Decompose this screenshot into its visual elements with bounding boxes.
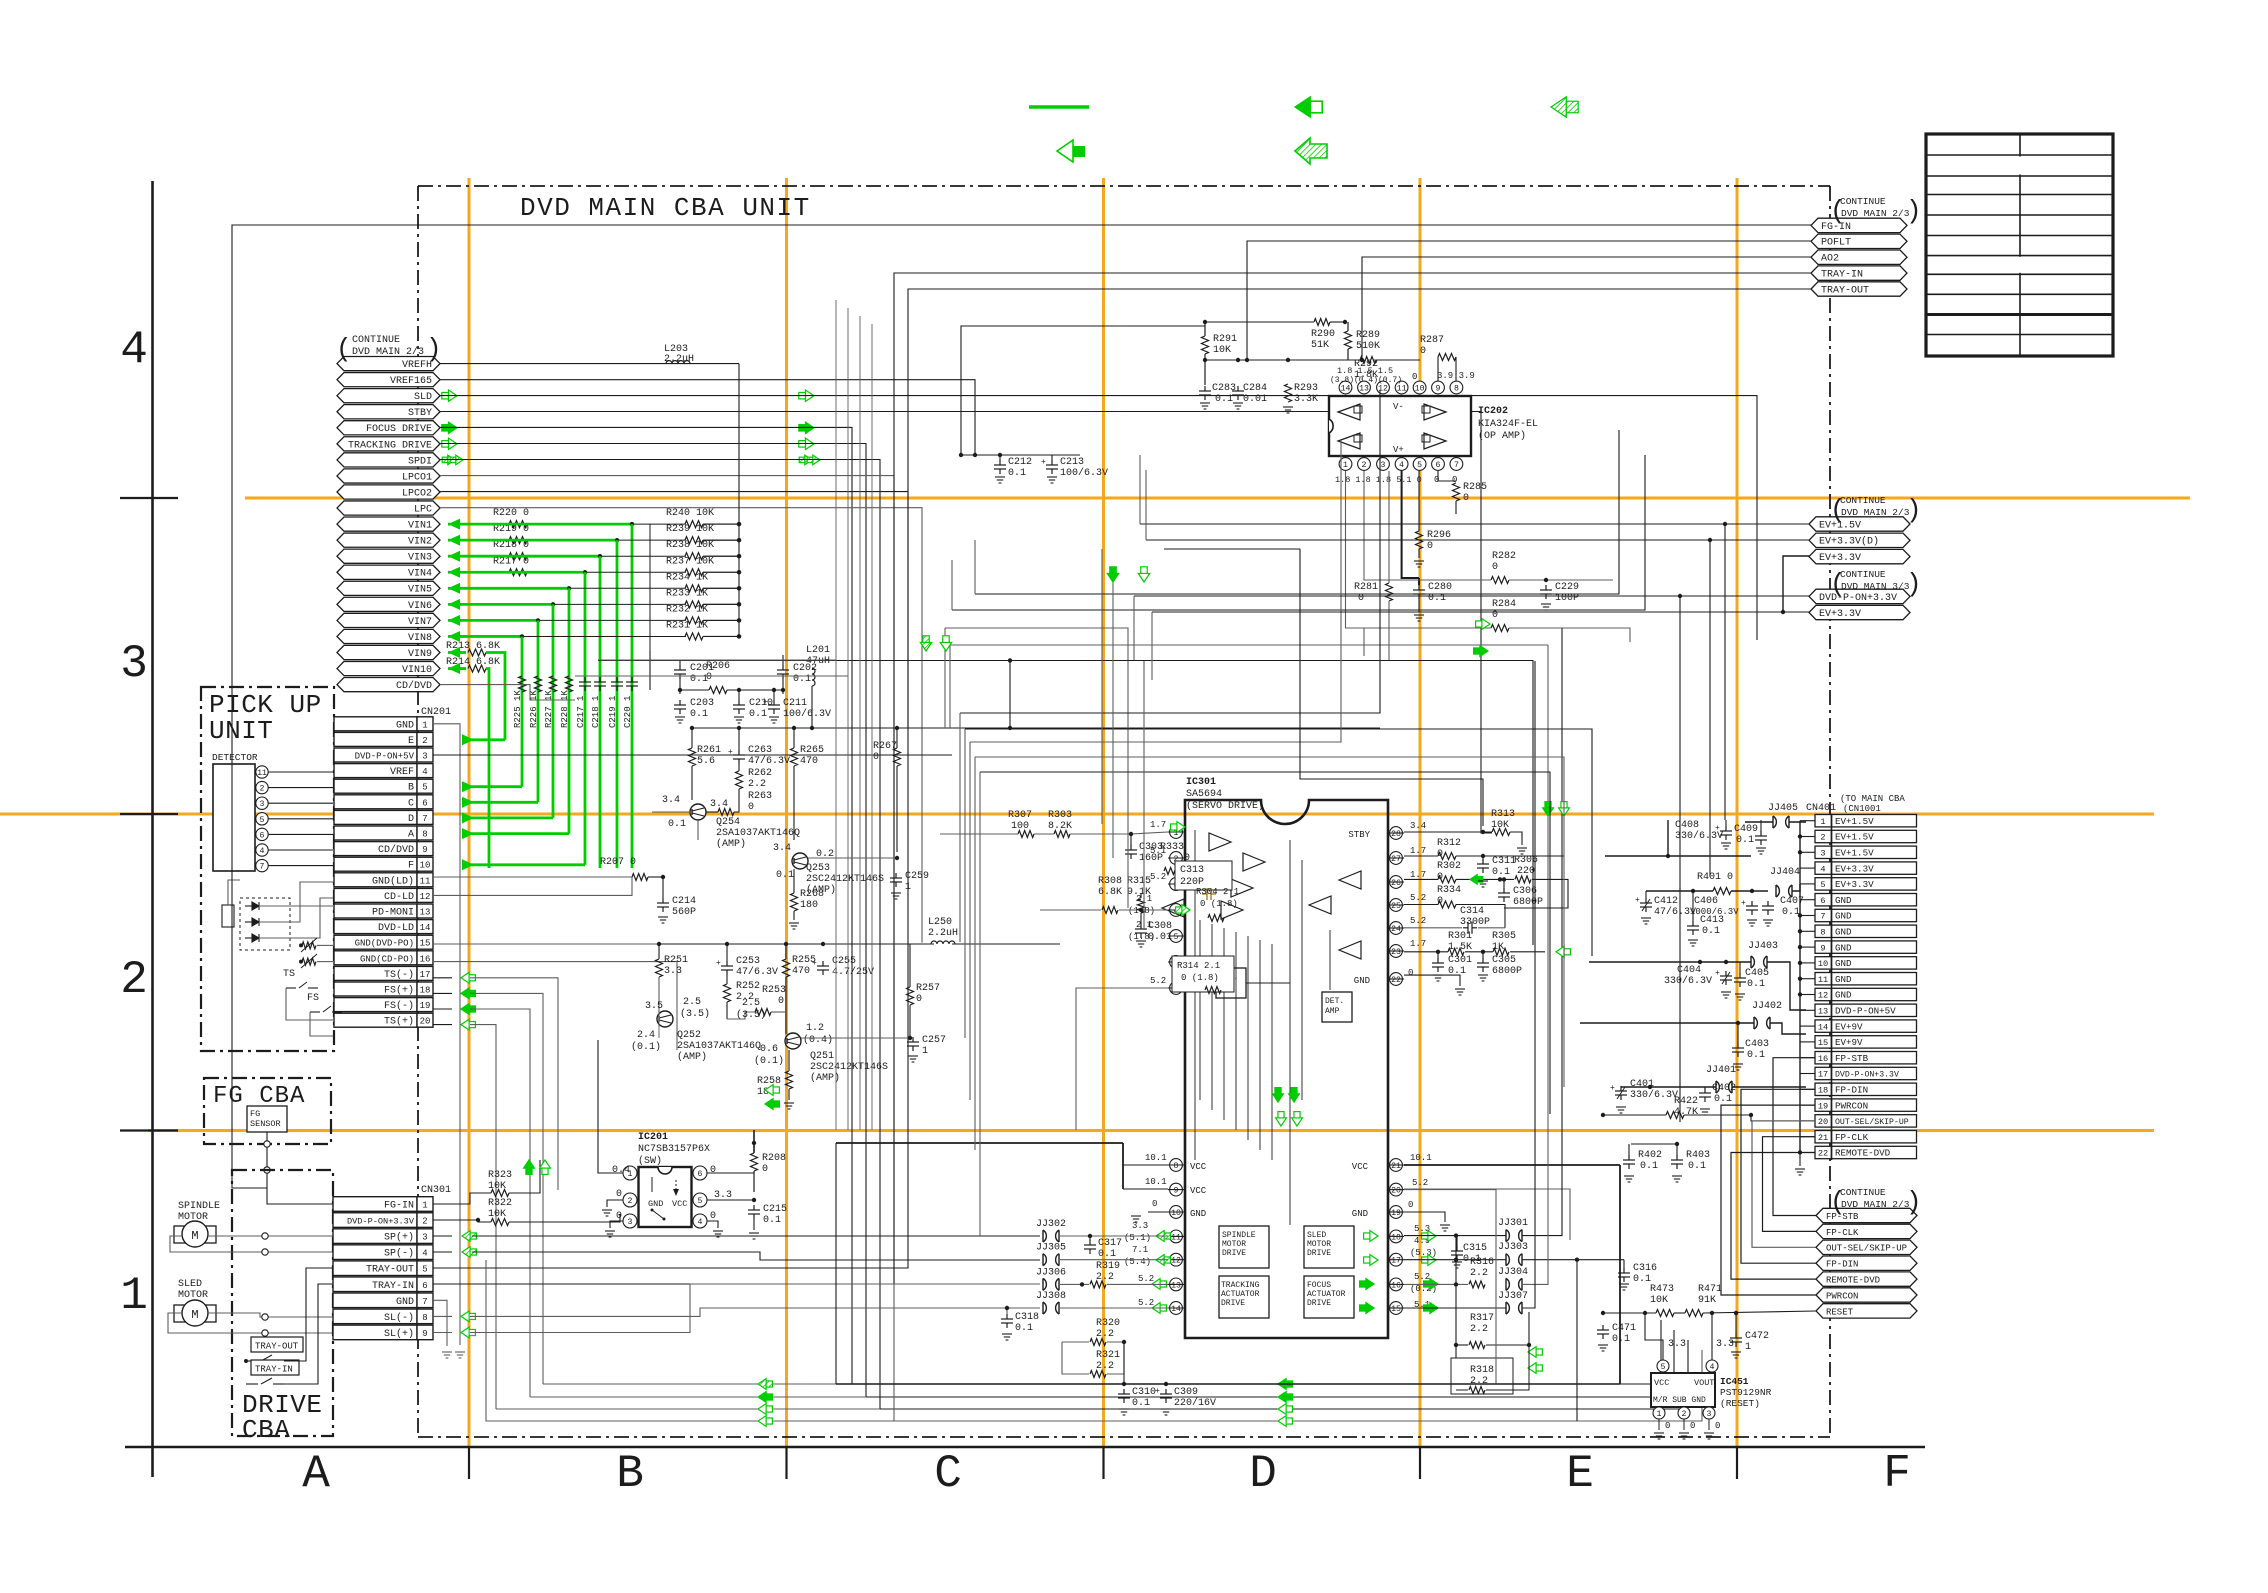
svg-text:0: 0 — [1665, 1421, 1670, 1431]
wire RESET net — [1603, 1312, 1656, 1314]
svg-text:0.01: 0.01 — [1243, 394, 1267, 405]
transistor Q254 2SA1037AKT146Q — [690, 804, 706, 820]
CN301 pin 2 DVD-P-ON+3.3V — [333, 1213, 417, 1228]
svg-text:EV+3.3V(D): EV+3.3V(D) — [1819, 536, 1879, 548]
svg-text:R401 0: R401 0 — [1697, 872, 1733, 883]
svg-text:0: 0 — [1358, 593, 1364, 604]
svg-text:TRAY-IN: TRAY-IN — [1821, 270, 1863, 281]
svg-text:21: 21 — [1391, 1162, 1401, 1171]
svg-text:C313: C313 — [1180, 865, 1204, 876]
component R226 on VIN bus — [535, 676, 542, 692]
svg-text:160P: 160P — [1139, 853, 1163, 864]
svg-text:14: 14 — [1818, 1022, 1828, 1032]
green arrows on bottom bundle x758 — [758, 1379, 766, 1390]
svg-text:C413: C413 — [1700, 915, 1724, 926]
IC202 pin 4 — [1395, 458, 1408, 471]
svg-text:GND(DVD-PO): GND(DVD-PO) — [355, 939, 414, 949]
IC451 pin 4 — [1706, 1360, 1718, 1372]
svg-text:C212: C212 — [1008, 457, 1032, 468]
svg-text:VIN1: VIN1 — [408, 521, 432, 532]
svg-text:SENSOR: SENSOR — [250, 1119, 281, 1129]
svg-text:47uH: 47uH — [806, 656, 830, 667]
svg-text:FP-STB: FP-STB — [1835, 1053, 1869, 1064]
svg-text:(CN1001: (CN1001 — [1843, 804, 1881, 814]
CN201 pin 12 CD-LD — [334, 888, 417, 902]
IC201 pin 2 — [623, 1193, 637, 1207]
wire LPCO1 — [440, 476, 1702, 1421]
IC301 pin 2 — [1170, 852, 1183, 865]
svg-text:GND: GND — [1835, 974, 1852, 985]
svg-text:0: 0 — [1427, 541, 1433, 552]
svg-text:3300P: 3300P — [1460, 917, 1490, 928]
svg-text:1.7: 1.7 — [1410, 846, 1426, 856]
svg-text:10: 10 — [1818, 959, 1828, 969]
svg-text:+: + — [728, 748, 733, 757]
op-amp element — [1338, 404, 1360, 420]
wire C212 node to R291 node — [961, 326, 1205, 455]
svg-text:3: 3 — [1820, 849, 1825, 859]
wire pin20 — [1404, 1189, 1570, 1240]
svg-text:4: 4 — [698, 1218, 703, 1227]
revision table (top right) — [1926, 134, 2113, 356]
black vertical x650 — [649, 524, 651, 651]
wire FG-IN net — [232, 225, 1811, 1188]
svg-text:CONTINUE: CONTINUE — [1840, 495, 1886, 506]
svg-text:10K: 10K — [1213, 345, 1231, 356]
IC301 internal wiring — [1199, 920, 1201, 1100]
svg-text:C305: C305 — [1492, 955, 1516, 966]
svg-text:R252: R252 — [736, 981, 760, 992]
capacitor C316 0.1 (right) — [1618, 1268, 1630, 1282]
green arrow SP(-) — [462, 1247, 470, 1258]
op-amp (IC301 internal) — [1339, 871, 1361, 889]
svg-text:VIN8: VIN8 — [408, 633, 432, 644]
green reference line (top) — [1029, 105, 1089, 108]
svg-text:AMP: AMP — [1325, 1007, 1340, 1016]
svg-text:R313: R313 — [1491, 809, 1515, 820]
svg-text:CN401: CN401 — [1806, 803, 1836, 814]
wire bundle bottom row4 left — [486, 1260, 894, 1421]
svg-text:+: + — [1610, 1084, 1615, 1093]
wire EV+3.3V jog — [1790, 555, 1809, 557]
svg-text:C316: C316 — [1633, 1263, 1657, 1274]
svg-text:1: 1 — [422, 1201, 427, 1211]
svg-text:4: 4 — [120, 324, 148, 376]
wire FS(-) row — [433, 1008, 452, 1010]
svg-text:(3.5): (3.5) — [736, 1009, 766, 1021]
svg-text:TRAY-OUT: TRAY-OUT — [366, 1265, 414, 1276]
IC451 pin 1 — [1653, 1407, 1665, 1419]
svg-text:PWRCON: PWRCON — [1826, 1291, 1858, 1301]
svg-text:IC201: IC201 — [638, 1132, 668, 1143]
svg-text:GND: GND — [1835, 911, 1852, 922]
svg-text:C318: C318 — [1015, 1312, 1039, 1323]
svg-text:3: 3 — [1381, 461, 1386, 470]
svg-text:7.1: 7.1 — [1132, 1245, 1148, 1255]
wire JJ305 to pin12 — [1060, 1259, 1168, 1261]
FOCUS ACTUATOR DRIVE block — [1304, 1276, 1354, 1318]
svg-text:R305: R305 — [1492, 931, 1516, 942]
node label VIN3 — [337, 549, 440, 563]
svg-text:0.6: 0.6 — [760, 1044, 778, 1055]
svg-text:C217 1: C217 1 — [576, 696, 586, 728]
wire C201 top — [649, 651, 651, 690]
svg-text:R284: R284 — [1492, 599, 1516, 610]
wire EV+3.3V(D) feed — [1146, 540, 1710, 877]
svg-text:CN301: CN301 — [421, 1185, 451, 1196]
wire VREF165 — [440, 380, 975, 455]
svg-text:3.5: 3.5 — [645, 1001, 663, 1012]
svg-text:B: B — [616, 1448, 644, 1500]
svg-text:5: 5 — [1174, 933, 1179, 942]
node label LPC — [337, 501, 440, 515]
op-amp (IC301 internal) — [1221, 901, 1243, 919]
capacitor C305 6800P — [1482, 952, 1484, 959]
svg-text:(3.8)(0.4)(0.7): (3.8)(0.4)(0.7) — [1330, 376, 1402, 385]
svg-text:2.2: 2.2 — [748, 779, 766, 790]
svg-text:3.3: 3.3 — [664, 966, 682, 977]
capacitor C202 0.1 — [777, 665, 789, 679]
svg-text:470: 470 — [792, 966, 810, 977]
svg-text:R308: R308 — [1098, 876, 1122, 887]
node label VIN2 — [337, 533, 440, 547]
svg-text:1.8 1.5 1.5: 1.8 1.5 1.5 — [1337, 366, 1393, 376]
svg-text:DVD-P-ON+3.3V: DVD-P-ON+3.3V — [1835, 1071, 1899, 1080]
detector pin 5 — [256, 813, 268, 825]
wire JJ308 to pin14 — [1060, 1307, 1168, 1309]
svg-text:7: 7 — [1454, 461, 1459, 470]
svg-text:15: 15 — [1391, 1305, 1401, 1314]
svg-text:R302: R302 — [1437, 861, 1461, 872]
svg-text:R315: R315 — [1127, 876, 1151, 887]
node label VIN6 — [337, 597, 440, 611]
capacitor C301 0.1 — [1437, 952, 1439, 959]
wire R208 top — [753, 1130, 755, 1153]
orange horizontal grid line 3/4 — [245, 497, 2190, 500]
svg-text:D: D — [408, 814, 414, 825]
svg-text:2.2: 2.2 — [1470, 1268, 1488, 1279]
svg-text:A: A — [302, 1448, 330, 1500]
svg-text:4: 4 — [422, 767, 427, 777]
node label SLD — [337, 389, 440, 403]
TRACKING ACTUATOR DRIVE block — [1219, 1276, 1269, 1318]
CN301 pin 4 SP(-) — [333, 1245, 417, 1260]
svg-text:POFLT: POFLT — [1821, 238, 1851, 249]
power rail 1 (y728) — [692, 727, 1380, 729]
svg-text:C203: C203 — [690, 698, 714, 709]
svg-text:23: 23 — [1391, 948, 1401, 957]
wire CN401 pin22 to bottom connector — [1731, 1153, 1816, 1280]
IC301 pin 9 — [1170, 1183, 1183, 1196]
svg-text:R317: R317 — [1470, 1313, 1494, 1324]
svg-text:1: 1 — [905, 882, 911, 893]
svg-text:R225 1K: R225 1K — [513, 690, 523, 728]
svg-text:UNIT: UNIT — [209, 716, 273, 746]
svg-text:EV+9V: EV+9V — [1835, 1037, 1863, 1048]
svg-text:R238 10K: R238 10K — [666, 540, 714, 551]
svg-text:+: + — [1041, 458, 1046, 467]
svg-text:VREF165: VREF165 — [390, 376, 432, 387]
IC201 pin 5 — [693, 1193, 707, 1207]
svg-text:D: D — [1249, 1448, 1277, 1500]
svg-text:2SA1037AKT146Q: 2SA1037AKT146Q — [677, 1041, 761, 1052]
svg-text:12: 12 — [1171, 1257, 1181, 1266]
op-amp element — [1424, 433, 1446, 449]
svg-text:DVD-LD: DVD-LD — [378, 923, 414, 934]
photo sensor sub-box — [222, 905, 234, 927]
op-amp element — [1338, 433, 1360, 449]
node label VIN10 — [337, 661, 440, 675]
svg-text:510K: 510K — [1356, 341, 1380, 352]
svg-text:19: 19 — [1391, 1209, 1401, 1218]
svg-text:1: 1 — [1657, 1410, 1662, 1419]
capacitor C303 160P — [1130, 834, 1132, 846]
svg-text:3.3: 3.3 — [714, 1190, 732, 1201]
svg-text:R323: R323 — [488, 1170, 512, 1181]
wire spindle motor SP(+) — [208, 1235, 333, 1237]
svg-text:0: 0 — [1492, 562, 1498, 573]
component C217 on VIN bus — [579, 677, 591, 691]
wire CN401 pin21 to bottom connector — [1763, 1137, 1817, 1232]
IC201 pin 4 — [693, 1214, 707, 1228]
svg-text:VIN6: VIN6 — [408, 601, 432, 612]
wire nest line 6 — [960, 390, 1380, 713]
IC301 pin 23 — [1390, 945, 1403, 958]
svg-text:FP-CLK: FP-CLK — [1826, 1228, 1859, 1238]
green arrow at SLD (mid) — [805, 390, 814, 401]
svg-text:FP-DIN: FP-DIN — [1826, 1260, 1858, 1270]
svg-text:IC301: IC301 — [1186, 777, 1216, 788]
svg-text:6: 6 — [698, 1170, 703, 1179]
green arrows at IC301 right side — [1370, 1231, 1378, 1242]
svg-text:C404: C404 — [1677, 965, 1701, 976]
svg-text:OUT-SEL/SKIP-UP: OUT-SEL/SKIP-UP — [1835, 1117, 1909, 1127]
detector pin 11 — [256, 766, 268, 778]
svg-text:0.4: 0.4 — [612, 1165, 630, 1176]
node label DVD-P-ON+3.3V — [1809, 589, 1910, 603]
wire pin20 down — [1404, 1190, 1496, 1384]
node label TRAY-IN — [1811, 266, 1907, 280]
svg-text:0: 0 — [1152, 1199, 1157, 1209]
svg-text:C: C — [934, 1448, 962, 1500]
svg-text:EV+1.5V: EV+1.5V — [1835, 816, 1874, 827]
CN401 pin 22 REMOTE-DVD — [1815, 1146, 1832, 1158]
resistor R289 510K — [1345, 331, 1352, 349]
svg-text:RESET: RESET — [1826, 1307, 1854, 1317]
svg-text:R473: R473 — [1650, 1284, 1674, 1295]
svg-text:2: 2 — [260, 785, 265, 794]
wire CD/DVD — [440, 685, 575, 700]
capacitor C203 0.1 — [674, 700, 686, 714]
svg-text:0: 0 — [762, 1164, 768, 1175]
svg-text:TRACKING: TRACKING — [1221, 1281, 1260, 1290]
svg-text:R237 10K: R237 10K — [666, 556, 714, 567]
IC301 pin 13 — [1170, 1278, 1183, 1291]
svg-text:0.1: 0.1 — [1098, 1249, 1116, 1260]
svg-text:3.4: 3.4 — [773, 843, 791, 854]
svg-text:10: 10 — [420, 861, 431, 871]
green wire VIN9 — [448, 651, 466, 654]
IC301 pin 25 — [1390, 899, 1403, 912]
svg-text:ACTUATOR: ACTUATOR — [1221, 1290, 1260, 1299]
wire sled motor SL(-) — [208, 1313, 333, 1317]
IC301 pin 8 — [1170, 1159, 1183, 1172]
capacitor C311 0.1 — [1482, 856, 1484, 861]
node label FP-CLK — [1816, 1224, 1917, 1238]
svg-text:V-: V- — [1393, 402, 1404, 412]
CN201 pin 1 GND — [334, 717, 417, 731]
node label STBY — [337, 405, 440, 419]
CN401 pin 19 PWRCON — [1815, 1099, 1832, 1111]
svg-text:R228 1K: R228 1K — [560, 690, 570, 728]
component C220 on VIN bus — [626, 677, 638, 691]
resistor R314 (boxed) — [1172, 956, 1234, 992]
svg-text:0.1: 0.1 — [1640, 1161, 1658, 1172]
svg-text:EV+3.3V: EV+3.3V — [1835, 863, 1874, 874]
svg-text:3: 3 — [1707, 1410, 1712, 1419]
svg-text:IC202: IC202 — [1478, 406, 1508, 417]
wire JJ302 to pin11 — [1060, 1235, 1168, 1237]
capacitor C263 47/6.3V — [733, 750, 745, 764]
svg-text:100/6.3V: 100/6.3V — [1060, 467, 1108, 479]
green arrow pin4 — [1182, 905, 1190, 916]
green wire into CN201 row y739 — [462, 738, 505, 741]
IC201 pin 3 — [623, 1214, 637, 1228]
svg-text:R265: R265 — [800, 745, 824, 756]
svg-text:JJ302: JJ302 — [1036, 1219, 1066, 1230]
svg-text:6: 6 — [422, 1281, 427, 1291]
wire nest feed x1102 — [1101, 549, 1103, 824]
svg-text:3: 3 — [120, 638, 148, 690]
green wire VIN7 — [538, 619, 686, 621]
CN401 pin 6 GND — [1815, 894, 1832, 906]
svg-text:R289: R289 — [1356, 330, 1380, 341]
wire FG sensor to CN301 pin1 — [267, 1132, 333, 1204]
wire FS(+) row — [433, 992, 452, 994]
svg-text:(0.1): (0.1) — [754, 1055, 784, 1067]
wire sled motor SL(+) — [168, 1313, 333, 1333]
CN201 pin 2 E — [334, 732, 417, 746]
svg-text:0.01: 0.01 — [1148, 932, 1172, 943]
transistor Q253 2SC2412KT146S — [792, 853, 808, 869]
power rail 2 (y942) — [659, 943, 934, 945]
wire bundle bottom row3 left — [496, 1408, 880, 1410]
svg-text:25: 25 — [1391, 902, 1401, 911]
green wire VIN6 — [553, 603, 686, 605]
wire spindle motor SP(-) — [170, 1236, 333, 1252]
wire GND(DVD-PO) row joins rail — [433, 943, 659, 945]
IC202 pin 14 — [1339, 381, 1352, 394]
svg-text:C403: C403 — [1745, 1039, 1769, 1050]
svg-text:17: 17 — [1818, 1070, 1828, 1080]
svg-text:0.1: 0.1 — [776, 870, 794, 881]
IC202 pin 10 — [1413, 381, 1426, 394]
svg-text:DVD-P-ON+5V: DVD-P-ON+5V — [1835, 1006, 1896, 1017]
svg-text:+: + — [1741, 899, 1746, 908]
svg-text:0: 0 — [1412, 372, 1417, 382]
node label VIN5 — [337, 581, 440, 595]
svg-text:2.5: 2.5 — [742, 998, 760, 1009]
resistor R296 0 — [1416, 531, 1423, 549]
svg-text:5.2: 5.2 — [1412, 1178, 1428, 1188]
svg-text:1: 1 — [922, 1046, 928, 1057]
green arrows below Q251 — [765, 1085, 773, 1096]
left border tick y498 — [120, 497, 178, 499]
IC301 pin 7 — [1170, 982, 1183, 995]
node label TRACKING DRIVE — [337, 437, 440, 451]
svg-text:11: 11 — [1397, 385, 1407, 394]
svg-text:FP-DIN: FP-DIN — [1835, 1085, 1868, 1096]
svg-text:ACTUATOR: ACTUATOR — [1307, 1290, 1346, 1299]
SLED MOTOR DRIVE block — [1304, 1226, 1354, 1268]
green arrow at R305 — [1556, 946, 1564, 957]
svg-text:5: 5 — [260, 816, 265, 825]
node label LPCO1 — [337, 469, 440, 483]
svg-text:+: + — [716, 959, 721, 968]
node label FP-STB — [1816, 1208, 1917, 1222]
IC301 pin 20 — [1390, 1183, 1403, 1196]
IC201 pin 1 — [623, 1166, 637, 1180]
svg-text:10.1: 10.1 — [1145, 1177, 1167, 1187]
CN401 pin 16 FP-STB — [1815, 1052, 1832, 1064]
CN201 pin 11 GND(LD) — [334, 873, 417, 887]
node label LPCO2 — [337, 485, 440, 499]
svg-text:22: 22 — [1818, 1149, 1828, 1159]
resistor R291 10K — [1202, 336, 1209, 354]
svg-text:R403: R403 — [1686, 1150, 1710, 1161]
CN401 pin 4 EV+3.3V — [1815, 862, 1832, 874]
svg-text:): ) — [1906, 1187, 1922, 1217]
svg-text:C210: C210 — [749, 698, 773, 709]
svg-text:0: 0 — [1434, 475, 1439, 485]
svg-text:JJ301: JJ301 — [1498, 1218, 1528, 1229]
svg-text:R268: R268 — [800, 889, 824, 900]
svg-text:2SA1037AKT146Q: 2SA1037AKT146Q — [716, 828, 800, 839]
svg-text:(SW): (SW) — [638, 1155, 662, 1167]
svg-text:C401: C401 — [1630, 1079, 1654, 1090]
svg-text:JJ404: JJ404 — [1770, 867, 1800, 878]
IC301 pin 6 — [1170, 956, 1183, 969]
node label VREF165 — [337, 373, 440, 387]
green wire into CN201 row y864 — [462, 863, 585, 866]
DRIVE CBA box — [232, 1170, 333, 1436]
svg-text:FG-IN: FG-IN — [384, 1201, 414, 1212]
CN401 pin 5 EV+3.3V — [1815, 878, 1832, 890]
svg-text:SA5694: SA5694 — [1186, 789, 1222, 800]
svg-text:FS(+): FS(+) — [384, 985, 414, 997]
svg-text:0.1: 0.1 — [1008, 468, 1026, 479]
svg-text:EV+1.5V: EV+1.5V — [1835, 848, 1874, 859]
DVD MAIN CBA UNIT boundary (dash-dot box) — [418, 185, 1830, 187]
wire IC201 pin1 — [598, 1040, 623, 1173]
svg-text:C405: C405 — [1745, 968, 1769, 979]
green down arrow pair at R313 — [1543, 808, 1554, 816]
node label REMOTE-DVD — [1816, 1272, 1917, 1286]
wire CN401 pin18 to bottom connector — [1741, 1089, 1816, 1263]
wire JJ307 out — [1522, 661, 1535, 1308]
svg-text:4: 4 — [1710, 1363, 1715, 1372]
svg-text:180: 180 — [800, 900, 818, 911]
wire SP(-) net — [433, 1251, 452, 1253]
svg-text:19: 19 — [420, 1001, 431, 1011]
svg-text:6: 6 — [1436, 461, 1441, 470]
svg-text:CD/DVD: CD/DVD — [396, 680, 432, 692]
node label TRAY-OUT — [1811, 282, 1907, 296]
svg-text:R231 1K: R231 1K — [666, 620, 708, 631]
green arrow at SLD — [448, 390, 457, 401]
CN401 bus ground — [1799, 1153, 1801, 1167]
wire TRAY-OUT net — [433, 289, 1811, 1268]
